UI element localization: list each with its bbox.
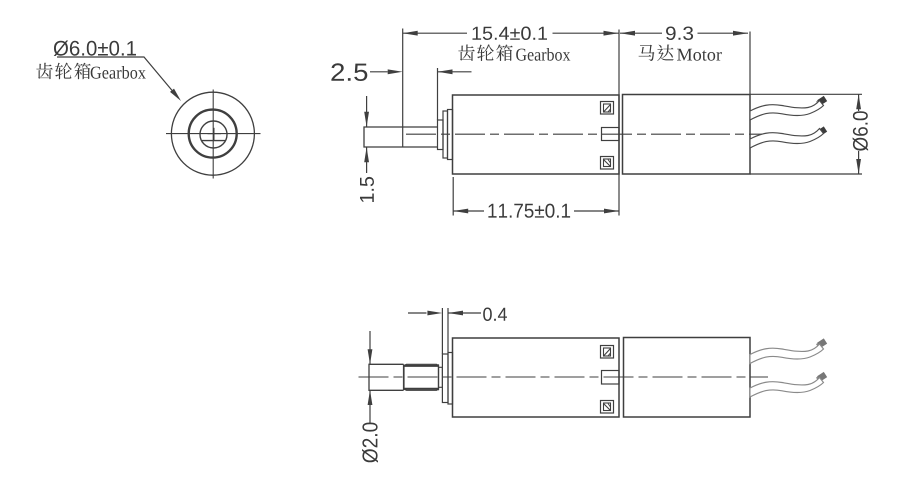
- text gearbox label chinese: [36, 63, 90, 80]
- center line horizontal (end view): [166, 133, 261, 135]
- text gearbox diameter Ø6.0±0.1: [54, 41, 136, 57]
- motor terminal lower (top view): [601, 157, 614, 170]
- lead wire lower (top view): [750, 126, 827, 148]
- text gearbox section latin: [516, 48, 570, 61]
- dim text Ø6.0 rotated: [853, 111, 869, 151]
- dim 11.75 line: [453, 209, 619, 214]
- shaft flat chord: [202, 140, 226, 142]
- center line (top side view): [406, 133, 768, 135]
- dim 0.4 line: [408, 311, 481, 316]
- gearbox ring circle: [189, 110, 237, 158]
- dim 2.5 line: [370, 69, 472, 74]
- motor pinion (bottom view): [602, 371, 620, 385]
- extension line shaft collar face: [437, 68, 439, 120]
- gearbox body (bottom view): [453, 338, 620, 417]
- dim text 15.4±0.1: [473, 27, 548, 41]
- dim text 9.3: [666, 27, 693, 41]
- dim text 0.4: [483, 308, 507, 322]
- center cross vertical: [213, 128, 215, 140]
- shaft feature line / extension 15.4: [402, 29, 404, 148]
- dim Ø6.0 extension bottom: [750, 173, 862, 175]
- text gearbox label latin: [91, 66, 146, 79]
- motor terminal upper (bottom view): [601, 346, 614, 359]
- output shaft (top view): [364, 127, 438, 147]
- output shaft (bottom view): [369, 364, 404, 390]
- dim text Ø2.0 rotated: [362, 423, 378, 463]
- dim Ø2.0 lines: [368, 331, 373, 423]
- motor body (top view): [623, 95, 751, 175]
- center line (bottom side view): [359, 376, 769, 378]
- lead wire lower (bottom view): [750, 372, 827, 397]
- gearbox outer circle: [171, 92, 254, 175]
- motor pinion (top view): [602, 128, 620, 141]
- lead wire upper (top view): [750, 96, 827, 120]
- dim 9.3 line: [620, 31, 748, 36]
- dim text 1.5 rotated: [360, 177, 374, 202]
- text motor section latin: [677, 49, 722, 61]
- extension line gearbox/motor joint: [618, 30, 620, 216]
- dim Ø6.0 line: [856, 94, 861, 174]
- text motor section chinese: [639, 45, 674, 62]
- dim text 11.75±0.1: [488, 204, 570, 218]
- dim text 2.5: [331, 63, 367, 81]
- shaft bore circle: [200, 121, 227, 148]
- motor terminal lower (bottom view): [601, 401, 614, 414]
- dim 1.5 lines: [364, 96, 369, 173]
- motor terminal upper (top view): [601, 102, 614, 115]
- shaft collar: [438, 120, 444, 150]
- center cross horizontal: [208, 133, 222, 135]
- motor body (bottom view): [624, 338, 751, 418]
- threaded shaft section: [404, 364, 439, 390]
- washer 2 (top view): [448, 110, 453, 160]
- washer 2 (bottom view): [448, 353, 453, 405]
- shaft neck (bottom view): [439, 367, 443, 387]
- dim 15.4 line: [403, 31, 619, 36]
- extension line motor rear: [749, 32, 751, 95]
- text gearbox section chinese: [458, 44, 512, 61]
- dim 0.4 extension lines: [442, 308, 448, 354]
- lead wire upper (bottom view): [750, 338, 827, 363]
- label leader line gearbox diameter: [57, 57, 181, 101]
- washer 1 (top view): [443, 111, 448, 158]
- dim Ø6.0 extension top: [750, 93, 862, 95]
- washer 1 (bottom view): [442, 354, 448, 403]
- gearbox body (top view): [453, 95, 620, 174]
- center line vertical (end view): [212, 90, 214, 179]
- dim 11.75 extension left: [452, 177, 454, 216]
